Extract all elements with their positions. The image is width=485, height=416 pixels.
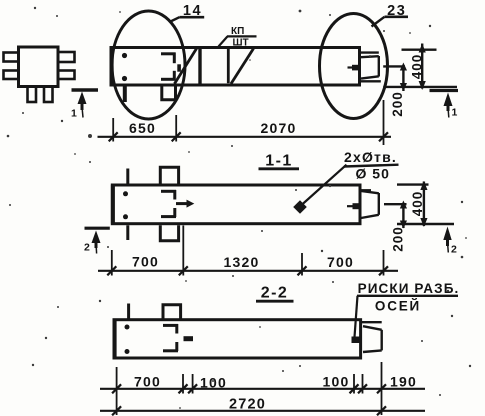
dim row 2-2 first [100,388,425,390]
svg-text:РИСКИ РАЗБ.: РИСКИ РАЗБ. [358,281,460,296]
svg-text:700: 700 [134,374,161,390]
bearing plate vertical 2 [227,49,230,83]
dot 2-2 upper [125,325,130,330]
svg-text:650: 650 [129,120,156,136]
svg-text:1: 1 [71,108,77,120]
svg-text:2: 2 [451,244,457,256]
bearing plate right diagonal [231,49,254,84]
end view left stub bottom [4,71,19,80]
dim 200 1-1 [402,204,404,228]
section mark 2 right [443,227,451,241]
svg-text:2-2: 2-2 [261,285,289,302]
svg-text:400: 400 [410,54,425,80]
anchor mark 1-1 [353,203,362,209]
socket detail 2-2 [361,322,382,352]
bearing plate vertical 1 [198,48,201,84]
dot 1-1 upper [123,191,128,196]
svg-text:100: 100 [200,375,227,391]
bar below beam 1-1 [126,225,129,240]
svg-text:2720: 2720 [229,397,266,413]
svg-text:ШТ: ШТ [233,38,249,49]
detail ellipse 14 [112,11,185,119]
dim 400 1-1 [397,183,429,185]
svg-text:1: 1 [452,107,458,119]
end view right stub top [58,52,75,62]
dim row 2-2 second [100,410,425,412]
end view bottom leg right [44,87,53,103]
detail ellipse 23 [320,14,388,119]
socket detail top view [360,53,381,82]
svg-text:700: 700 [327,254,354,270]
svg-text:400: 400 [410,191,425,217]
bar above beam 1-1 [126,169,129,185]
dot top view lower [122,76,127,81]
dim row 1-1 [98,270,398,272]
svg-text:2070: 2070 [261,120,297,136]
lifting loop top view [161,53,181,80]
dot 1-1 lower [123,214,128,219]
dim row top view [98,136,392,138]
svg-text:2хØтв.: 2хØтв. [344,149,397,165]
stirrup above beam 2-2 [163,305,181,319]
end view right stub bottom [58,71,75,80]
svg-text:Ø 50: Ø 50 [356,166,390,182]
lifting loop 2-2 [163,324,178,351]
socket detail 1-1 [360,190,379,218]
svg-text:190: 190 [390,374,417,390]
end view left stub top [4,53,19,62]
dim 200 top view [402,66,404,91]
svg-text:1320: 1320 [224,254,260,270]
bar above beam 2-2 [127,304,130,319]
lifting loop 1-1 [161,190,187,217]
left leg below beam top view [123,85,127,102]
dot top view upper [122,53,127,58]
svg-text:ОСЕЙ: ОСЕЙ [375,299,421,314]
leader riski [355,296,358,337]
leader to hole label [302,165,347,205]
svg-text:700: 700 [132,254,159,270]
section mark 1 left arrow [78,92,87,105]
end view square [19,47,59,87]
svg-text:2: 2 [84,242,90,254]
end view bottom leg left [28,87,37,103]
anchor mark top view [352,65,361,71]
section mark 1 right [430,89,459,92]
hole marker diamond [293,200,307,213]
section mark 1 left bar [72,88,99,92]
bearing plate left diagonal [175,48,198,84]
stirrup above beam 1-1 [160,167,178,184]
svg-text:100: 100 [323,374,350,390]
dot 2-2 lower [125,349,130,354]
beam outline 2-2 [114,320,361,358]
beam outline 1-1 [112,185,360,224]
stirrup below beam 1-1 [160,225,178,241]
right leg below beam top view [162,85,176,100]
section mark 2 left [85,227,110,230]
svg-text:200: 200 [390,91,405,117]
svg-text:1-1: 1-1 [265,153,293,170]
dim 400 top view [402,49,437,51]
svg-text:200: 200 [391,226,406,252]
beam outline top view [111,48,360,86]
